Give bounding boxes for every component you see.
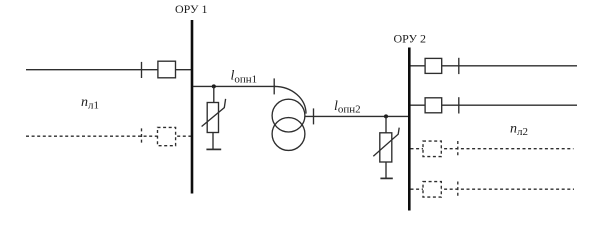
svg-text:lопн2: lопн2 bbox=[334, 99, 361, 116]
surge arrester ОПН-2 body bbox=[380, 133, 392, 162]
surge arrester ОПН-1 body bbox=[207, 103, 218, 133]
transformer winding 2 (bottom circle) bbox=[272, 118, 305, 151]
tick on left line 1 bbox=[141, 62, 143, 78]
dashed breaker box on right line 3 bbox=[423, 141, 441, 157]
svg-text:ОРУ 1: ОРУ 1 bbox=[175, 2, 208, 16]
dashed breaker box on right line 4 bbox=[423, 182, 441, 198]
dashed tick on right line 4 bbox=[457, 182, 459, 197]
node: junction dot on l_опн2 bbox=[384, 114, 388, 118]
wire: right overhead line 1 bbox=[411, 65, 578, 67]
dashed tick on left line 2 bbox=[141, 128, 143, 143]
svg-text:nл1: nл1 bbox=[81, 95, 99, 112]
dashed tick on right line 3 bbox=[457, 141, 459, 156]
busbar ОРУ 1 bbox=[191, 20, 194, 194]
surge arrester ОПН-1 diagonal arrow bbox=[202, 99, 226, 127]
ground 2 bbox=[380, 177, 392, 179]
transformer winding 1 (top circle) bbox=[272, 99, 305, 132]
wire: transformer to busbar 2 (l_опн2) bbox=[305, 115, 409, 117]
wire: right overhead line 2 bbox=[411, 104, 578, 106]
breaker box on right line 2 bbox=[425, 98, 442, 113]
svg-text:nл2: nл2 bbox=[510, 122, 528, 139]
dashed breaker box on left line 2 bbox=[158, 127, 176, 145]
wire: left overhead line 1 bbox=[26, 69, 191, 71]
tick on right line 1 bbox=[458, 58, 460, 74]
svg-text:ОРУ 2: ОРУ 2 bbox=[394, 32, 427, 46]
ground 1 bbox=[206, 148, 221, 150]
wire: arrester 1 to ground bbox=[212, 133, 214, 150]
tick on right line 2 bbox=[458, 97, 460, 113]
dashed wire: left overhead line 2 bbox=[26, 135, 191, 137]
tick on l_опн1 wire bbox=[273, 78, 275, 94]
wire: busbar 1 to transformer (l_опн1) bbox=[193, 85, 276, 87]
wire: arc bend into transformer bbox=[275, 86, 307, 113]
svg-text:lопн1: lопн1 bbox=[231, 69, 258, 86]
dashed wire: right overhead line 4 bbox=[411, 188, 575, 190]
breaker box on right line 1 bbox=[425, 58, 442, 73]
node: junction dot on l_опн1 bbox=[212, 84, 216, 88]
wire: dot to arrester 2 bbox=[385, 116, 387, 132]
breaker box on left line 1 bbox=[158, 61, 176, 78]
busbar ОРУ 2 bbox=[408, 48, 411, 211]
surge arrester ОПН-2 diagonal arrow bbox=[373, 128, 399, 157]
dashed wire: right overhead line 3 bbox=[411, 148, 574, 150]
tick on l_опн2 wire bbox=[313, 108, 315, 124]
wire: dot to arrester 1 bbox=[213, 86, 215, 102]
wire: arrester 2 to ground bbox=[385, 162, 387, 178]
